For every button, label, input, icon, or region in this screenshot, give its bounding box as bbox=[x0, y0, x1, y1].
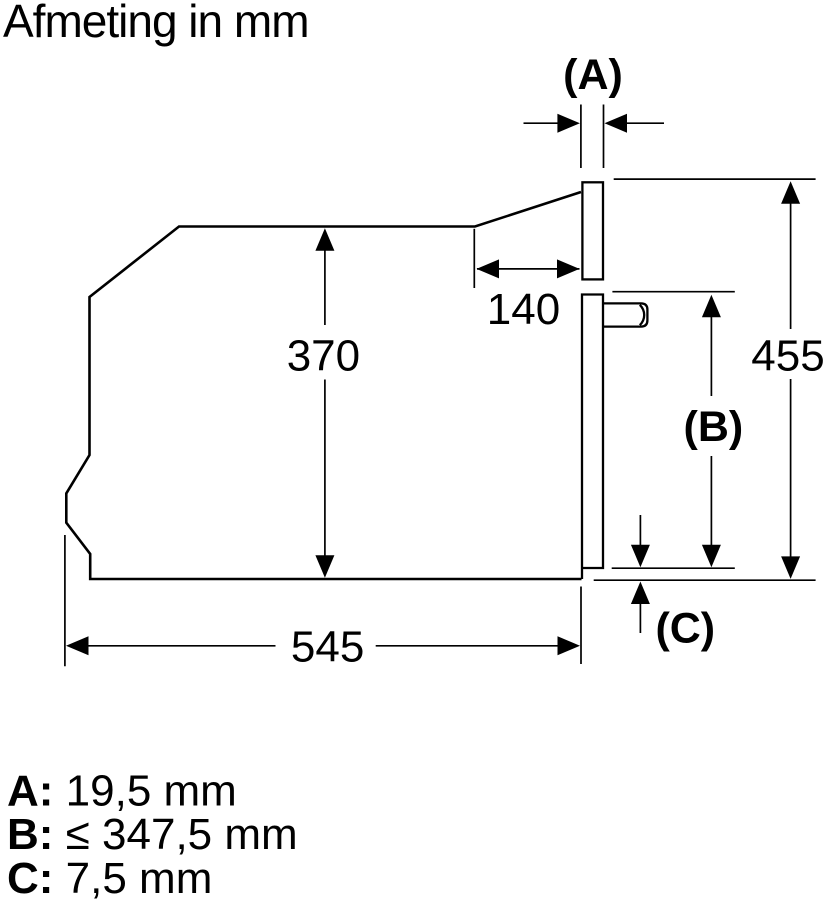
svg-text:455: 455 bbox=[751, 331, 824, 380]
svg-text:B: ≤ 347,5 mm: B: ≤ 347,5 mm bbox=[7, 810, 298, 859]
svg-text:A: 19,5 mm: A: 19,5 mm bbox=[7, 767, 237, 816]
svg-text:C: 7,5 mm: C: 7,5 mm bbox=[7, 854, 212, 900]
svg-text:(B): (B) bbox=[684, 403, 744, 451]
svg-text:Afmeting in mm: Afmeting in mm bbox=[3, 0, 309, 47]
svg-text:(A): (A) bbox=[563, 51, 623, 99]
svg-text:140: 140 bbox=[487, 285, 560, 334]
svg-text:(C): (C) bbox=[655, 605, 715, 653]
svg-text:370: 370 bbox=[287, 332, 360, 381]
svg-text:545: 545 bbox=[291, 623, 364, 672]
